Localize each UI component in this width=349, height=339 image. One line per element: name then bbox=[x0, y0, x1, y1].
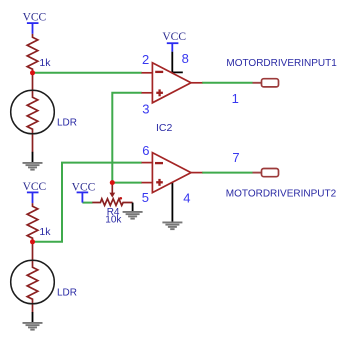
svg-text:5: 5 bbox=[142, 190, 149, 205]
svg-text:VCC: VCC bbox=[23, 12, 47, 24]
svg-text:VCC: VCC bbox=[72, 182, 96, 194]
svg-text:LDR: LDR bbox=[57, 117, 77, 128]
svg-text:MOTORDRIVERINPUT1: MOTORDRIVERINPUT1 bbox=[226, 58, 337, 69]
svg-text:LDR: LDR bbox=[57, 287, 77, 298]
svg-text:10k: 10k bbox=[105, 214, 122, 225]
svg-text:8: 8 bbox=[182, 51, 189, 66]
svg-text:3: 3 bbox=[142, 102, 149, 117]
svg-text:7: 7 bbox=[232, 150, 239, 165]
svg-text:MOTORDRIVERINPUT2: MOTORDRIVERINPUT2 bbox=[226, 188, 337, 199]
svg-text:4: 4 bbox=[183, 191, 190, 206]
svg-text:VCC: VCC bbox=[23, 181, 47, 193]
svg-text:6: 6 bbox=[142, 143, 149, 158]
svg-text:1: 1 bbox=[232, 91, 239, 106]
svg-text:2: 2 bbox=[142, 52, 149, 67]
svg-text:VCC: VCC bbox=[162, 31, 186, 43]
svg-text:1k: 1k bbox=[39, 57, 51, 69]
svg-text:1k: 1k bbox=[39, 226, 51, 238]
svg-text:IC2: IC2 bbox=[156, 122, 173, 134]
